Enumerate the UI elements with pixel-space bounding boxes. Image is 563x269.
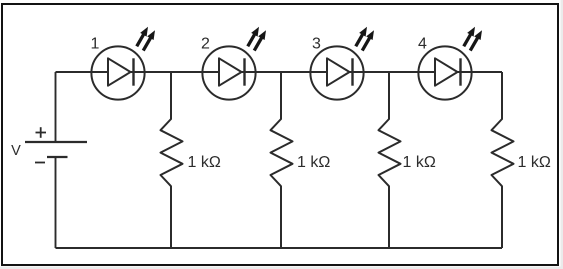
svg-text:4: 4: [418, 36, 427, 53]
svg-text:3: 3: [312, 36, 321, 53]
svg-text:1 kΩ: 1 kΩ: [518, 154, 551, 171]
svg-text:1 kΩ: 1 kΩ: [188, 154, 221, 171]
svg-text:V: V: [11, 143, 21, 159]
svg-text:2: 2: [201, 36, 210, 53]
svg-text:1: 1: [91, 36, 100, 53]
svg-text:1 kΩ: 1 kΩ: [297, 154, 330, 171]
svg-text:1 kΩ: 1 kΩ: [403, 154, 436, 171]
